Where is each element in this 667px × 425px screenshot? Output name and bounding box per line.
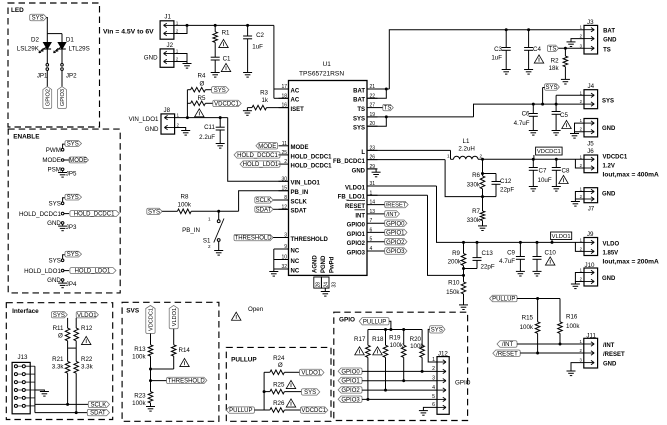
svg-text:VLDO: VLDO — [603, 242, 620, 248]
svg-text:15: 15 — [281, 186, 287, 192]
svg-text:JP4: JP4 — [66, 281, 77, 288]
svg-text:Ø: Ø — [278, 362, 283, 369]
svg-text:GPIO1: GPIO1 — [341, 379, 360, 385]
svg-text:4.7uF: 4.7uF — [499, 258, 515, 265]
svg-text:C7: C7 — [539, 168, 547, 175]
svg-text:150k: 150k — [446, 289, 460, 296]
svg-text:PB_IN: PB_IN — [182, 227, 200, 234]
svg-text:HOLD_LDO1: HOLD_LDO1 — [24, 268, 61, 275]
svg-text:100k: 100k — [566, 323, 580, 330]
svg-text:Ø: Ø — [58, 333, 63, 340]
svg-text:1: 1 — [432, 357, 435, 363]
svg-text:3.3k: 3.3k — [81, 364, 94, 371]
svg-text:THRESHOLD: THRESHOLD — [168, 379, 206, 385]
svg-text:GPIO1: GPIO1 — [347, 232, 366, 238]
svg-text:R11: R11 — [53, 325, 64, 332]
svg-text:LTL29S: LTL29S — [69, 46, 90, 53]
svg-text:SDAT: SDAT — [256, 207, 272, 213]
svg-text:J13: J13 — [18, 354, 29, 361]
svg-text:330k: 330k — [467, 217, 481, 224]
svg-text:GPIO3: GPIO3 — [341, 397, 360, 403]
svg-text:SYS: SYS — [49, 258, 61, 265]
svg-text:TS: TS — [549, 46, 557, 52]
svg-text:100k: 100k — [410, 343, 424, 350]
svg-text:PGND: PGND — [321, 255, 327, 273]
svg-text:SYS: SYS — [431, 327, 443, 333]
svg-text:R19: R19 — [389, 335, 401, 342]
svg-text:C10: C10 — [545, 249, 557, 256]
svg-text:R26: R26 — [273, 400, 285, 407]
svg-text:J2: J2 — [167, 42, 174, 49]
svg-text:GPIO0: GPIO0 — [347, 223, 366, 229]
svg-text:/RESET: /RESET — [603, 352, 625, 358]
svg-text:MODE: MODE — [291, 145, 309, 151]
svg-text:HOLD_LDO1: HOLD_LDO1 — [243, 162, 279, 168]
svg-text:VLDO1: VLDO1 — [345, 185, 366, 191]
svg-text:C9: C9 — [507, 250, 515, 257]
svg-text:VIN_LDO1: VIN_LDO1 — [129, 116, 159, 123]
svg-text:6: 6 — [370, 227, 373, 233]
svg-text:U1: U1 — [323, 61, 332, 68]
svg-text:330k: 330k — [467, 182, 481, 189]
svg-text:11: 11 — [282, 141, 287, 147]
svg-text:GPIO2: GPIO2 — [347, 241, 366, 247]
svg-text:/RESET: /RESET — [386, 203, 407, 209]
svg-text:C12: C12 — [500, 178, 512, 185]
svg-text:Interface: Interface — [12, 308, 39, 315]
svg-text:ISET: ISET — [291, 107, 305, 113]
svg-text:25: 25 — [281, 150, 287, 156]
svg-text:16: 16 — [281, 103, 287, 109]
svg-text:VDCDC1: VDCDC1 — [301, 408, 326, 414]
svg-text:INT: INT — [355, 213, 365, 219]
svg-text:PULLUP: PULLUP — [363, 319, 386, 325]
svg-text:SYS: SYS — [602, 99, 614, 105]
svg-text:1: 1 — [208, 217, 211, 222]
svg-text:2: 2 — [208, 244, 211, 249]
svg-text:R12: R12 — [81, 325, 93, 332]
svg-text:C1: C1 — [223, 56, 231, 63]
svg-text:HOLD_LDO1: HOLD_LDO1 — [75, 269, 111, 275]
svg-text:THRESHOLD: THRESHOLD — [291, 237, 329, 243]
svg-text:28: 28 — [316, 282, 322, 288]
svg-text:14: 14 — [370, 200, 376, 206]
svg-text:SYS: SYS — [53, 313, 65, 319]
svg-text:4: 4 — [370, 246, 373, 252]
svg-text:J5: J5 — [587, 140, 594, 147]
svg-text:/INT: /INT — [603, 343, 615, 349]
svg-text:VLDO1: VLDO1 — [552, 234, 571, 240]
svg-text:THRESHOLD: THRESHOLD — [235, 236, 273, 242]
svg-text:1uF: 1uF — [252, 44, 263, 51]
svg-text:PSM: PSM — [47, 167, 60, 174]
svg-text:100k: 100k — [178, 202, 192, 209]
svg-text:AC: AC — [291, 98, 300, 104]
svg-text:JP2: JP2 — [66, 73, 77, 80]
svg-text:J1: J1 — [164, 14, 171, 21]
svg-text:VDCDC1: VDCDC1 — [603, 155, 628, 161]
svg-text:SCLK: SCLK — [91, 403, 107, 409]
svg-text:12: 12 — [281, 204, 287, 210]
svg-text:GND: GND — [352, 168, 366, 174]
svg-text:SYS: SYS — [67, 195, 79, 201]
svg-text:32: 32 — [281, 264, 287, 270]
svg-text:R7: R7 — [472, 208, 480, 215]
svg-text:HOLD_DCDC1: HOLD_DCDC1 — [74, 212, 115, 218]
svg-text:VDCDC1: VDCDC1 — [537, 149, 561, 155]
svg-text:HOLD_DCDC1: HOLD_DCDC1 — [19, 211, 62, 218]
svg-text:BAT: BAT — [603, 29, 615, 35]
svg-text:33: 33 — [332, 282, 338, 288]
svg-text:22pF: 22pF — [481, 264, 495, 271]
svg-text:1: 1 — [447, 154, 450, 159]
svg-text:SYS: SYS — [214, 88, 226, 94]
svg-text:24: 24 — [323, 282, 329, 288]
svg-text:SVS: SVS — [126, 308, 140, 315]
svg-text:VLDO1: VLDO1 — [301, 371, 321, 377]
svg-text:4: 4 — [432, 385, 435, 391]
svg-text:BAT: BAT — [353, 88, 365, 94]
svg-text:R21: R21 — [52, 356, 64, 363]
svg-text:PULLUP: PULLUP — [229, 408, 252, 414]
svg-text:5: 5 — [432, 394, 435, 400]
svg-text:R14: R14 — [179, 347, 191, 354]
svg-text:ENABLE: ENABLE — [13, 134, 40, 141]
svg-text:PwPd: PwPd — [330, 256, 336, 273]
svg-text:10uF: 10uF — [538, 177, 552, 184]
svg-text:SYS: SYS — [32, 16, 44, 22]
svg-text:SYS: SYS — [545, 85, 557, 91]
svg-text:SDAT: SDAT — [90, 411, 106, 417]
svg-text:R4: R4 — [198, 73, 206, 80]
svg-text:NC: NC — [291, 259, 300, 265]
svg-text:HOLD_DCDC1: HOLD_DCDC1 — [291, 164, 333, 170]
svg-text:SYS: SYS — [304, 390, 316, 396]
svg-text:13: 13 — [370, 209, 376, 215]
svg-text:Open: Open — [248, 306, 264, 313]
svg-text:10: 10 — [281, 255, 287, 261]
svg-text:TPS65721RSN: TPS65721RSN — [299, 71, 344, 78]
svg-text:GND: GND — [602, 276, 616, 282]
svg-text:SYS: SYS — [353, 126, 365, 132]
svg-text:2.2uF: 2.2uF — [199, 134, 215, 141]
svg-text:GND: GND — [603, 362, 617, 368]
svg-text:MODE: MODE — [258, 144, 276, 150]
svg-text:Iout,max = 400mA: Iout,max = 400mA — [603, 172, 659, 179]
svg-text:R24: R24 — [273, 355, 285, 362]
svg-text:5: 5 — [370, 237, 373, 243]
svg-text:RESET: RESET — [345, 204, 365, 210]
svg-text:R18: R18 — [372, 336, 384, 343]
svg-text:30: 30 — [281, 176, 287, 182]
svg-text:1.85V: 1.85V — [603, 251, 619, 257]
svg-text:MODE: MODE — [69, 158, 87, 164]
svg-text:18k: 18k — [549, 65, 560, 72]
svg-text:100k: 100k — [132, 354, 146, 361]
svg-text:SYS: SYS — [49, 201, 61, 208]
svg-text:GND: GND — [602, 126, 616, 132]
svg-text:R20: R20 — [410, 336, 422, 343]
svg-text:TS: TS — [357, 107, 365, 113]
svg-text:J8: J8 — [164, 107, 171, 114]
svg-text:AGND: AGND — [313, 255, 319, 273]
svg-text:R10: R10 — [448, 280, 460, 287]
svg-text:SYS: SYS — [148, 209, 160, 215]
svg-text:C13: C13 — [482, 250, 494, 257]
svg-text:D1: D1 — [66, 37, 74, 44]
svg-text:SCLK: SCLK — [256, 198, 272, 204]
svg-text:R8: R8 — [181, 194, 189, 201]
svg-text:C8: C8 — [562, 168, 570, 175]
svg-text:GND: GND — [144, 54, 158, 61]
svg-text:GND: GND — [47, 277, 61, 284]
svg-text:27: 27 — [370, 103, 376, 109]
svg-text:1.2V: 1.2V — [603, 164, 615, 170]
svg-text:9: 9 — [284, 244, 287, 250]
svg-text:R25: R25 — [273, 381, 285, 388]
svg-text:C6: C6 — [522, 111, 530, 118]
svg-text:R22: R22 — [81, 356, 93, 363]
svg-text:PULLUP: PULLUP — [492, 297, 515, 303]
svg-text:2: 2 — [284, 159, 287, 165]
svg-text:3: 3 — [284, 233, 287, 239]
svg-text:1k: 1k — [261, 97, 268, 104]
svg-text:7: 7 — [370, 218, 373, 224]
svg-text:L: L — [361, 150, 365, 156]
svg-text:22pF: 22pF — [500, 187, 514, 194]
svg-text:SYS: SYS — [353, 116, 365, 122]
svg-text:GPIO3: GPIO3 — [347, 250, 366, 256]
svg-text:VLDO1: VLDO1 — [77, 313, 97, 319]
svg-text:200k: 200k — [448, 258, 462, 265]
svg-text:L1: L1 — [463, 138, 470, 145]
svg-text:R2: R2 — [551, 58, 559, 65]
svg-text:/INT: /INT — [386, 212, 397, 218]
svg-text:GPIO3: GPIO3 — [60, 89, 66, 106]
svg-text:Vin = 4.5V to 6V: Vin = 4.5V to 6V — [103, 29, 154, 36]
svg-text:GPIO: GPIO — [339, 317, 355, 324]
svg-text:2.2uH: 2.2uH — [458, 146, 475, 153]
svg-text:SYS: SYS — [67, 142, 79, 148]
svg-text:Iout,max = 200mA: Iout,max = 200mA — [603, 259, 659, 266]
svg-text:J6: J6 — [587, 148, 594, 155]
svg-text:PB_IN: PB_IN — [291, 190, 309, 196]
svg-text:FB_LDO1: FB_LDO1 — [338, 195, 366, 201]
svg-text:GPIO2: GPIO2 — [46, 89, 52, 106]
svg-text:2: 2 — [480, 154, 483, 159]
svg-text:J4: J4 — [588, 83, 595, 90]
svg-text:FB_DCDC1: FB_DCDC1 — [333, 159, 366, 165]
svg-text:LED: LED — [11, 7, 24, 14]
svg-text:/INT: /INT — [502, 342, 514, 348]
svg-text:18: 18 — [281, 93, 287, 99]
svg-text:100k: 100k — [132, 400, 146, 407]
svg-text:JP3: JP3 — [66, 224, 77, 231]
svg-text:R3: R3 — [260, 90, 268, 97]
svg-text:TS: TS — [603, 47, 611, 53]
svg-text:SCLK: SCLK — [291, 199, 308, 205]
svg-text:R23: R23 — [134, 392, 146, 399]
svg-text:R17: R17 — [354, 336, 366, 343]
svg-text:GPIO0: GPIO0 — [386, 221, 405, 227]
svg-text:GND: GND — [47, 220, 61, 227]
svg-text:TS: TS — [384, 106, 392, 112]
svg-text:VIN_LDO1: VIN_LDO1 — [291, 181, 321, 187]
svg-text:PWM: PWM — [46, 147, 61, 154]
svg-text:GPIO0: GPIO0 — [341, 369, 360, 375]
svg-text:GPIO2: GPIO2 — [386, 240, 405, 246]
svg-text:R1: R1 — [222, 30, 230, 37]
svg-text:1uF: 1uF — [491, 55, 502, 62]
svg-text:J7: J7 — [588, 206, 595, 213]
svg-text:Ø: Ø — [200, 80, 205, 87]
svg-text:NC: NC — [291, 268, 300, 274]
svg-text:VLDO1: VLDO1 — [172, 308, 178, 326]
svg-text:HOLD_DCDC1: HOLD_DCDC1 — [237, 153, 278, 159]
svg-text:JP5: JP5 — [66, 170, 77, 177]
svg-text:GPIO2: GPIO2 — [341, 388, 360, 394]
svg-text:GND: GND — [602, 192, 616, 198]
svg-text:8: 8 — [284, 195, 287, 201]
svg-text:VDCDC1: VDCDC1 — [214, 102, 239, 108]
svg-text:SDAT: SDAT — [291, 209, 307, 215]
svg-text:R9: R9 — [452, 250, 460, 257]
svg-text:/RESET: /RESET — [496, 351, 518, 357]
svg-text:C3: C3 — [494, 46, 502, 53]
svg-text:GND: GND — [603, 38, 617, 44]
svg-text:R13: R13 — [134, 346, 146, 353]
svg-text:PULLUP: PULLUP — [231, 356, 257, 363]
svg-text:R6: R6 — [472, 172, 480, 179]
svg-text:R15: R15 — [522, 315, 534, 322]
svg-text:C4: C4 — [533, 46, 541, 53]
svg-text:3: 3 — [432, 376, 435, 382]
svg-text:3.3k: 3.3k — [52, 364, 65, 371]
svg-text:AC: AC — [291, 88, 300, 94]
svg-text:HOLD_DCDC1: HOLD_DCDC1 — [291, 154, 333, 160]
svg-text:R16: R16 — [566, 314, 578, 321]
svg-text:GPIO: GPIO — [455, 380, 471, 387]
svg-text:NC: NC — [291, 248, 300, 254]
svg-text:JP1: JP1 — [37, 73, 48, 80]
svg-text:C2: C2 — [256, 32, 264, 39]
svg-text:C5: C5 — [560, 112, 568, 119]
svg-text:C11: C11 — [204, 124, 215, 131]
svg-text:GPIO3: GPIO3 — [386, 249, 405, 255]
svg-text:BAT: BAT — [353, 98, 365, 104]
svg-text:100k: 100k — [390, 342, 404, 349]
svg-text:GND: GND — [145, 126, 159, 133]
svg-text:MODE: MODE — [42, 157, 61, 164]
svg-text:GPIO1: GPIO1 — [386, 231, 405, 237]
svg-text:LSL29K: LSL29K — [17, 46, 40, 53]
svg-text:D2: D2 — [31, 37, 39, 44]
svg-text:VDCDC1: VDCDC1 — [149, 308, 155, 331]
svg-text:4.7uF: 4.7uF — [514, 120, 530, 127]
svg-text:100k: 100k — [520, 324, 534, 331]
svg-text:SYS: SYS — [67, 252, 79, 258]
svg-text:17: 17 — [281, 84, 287, 90]
svg-text:2: 2 — [432, 366, 435, 372]
